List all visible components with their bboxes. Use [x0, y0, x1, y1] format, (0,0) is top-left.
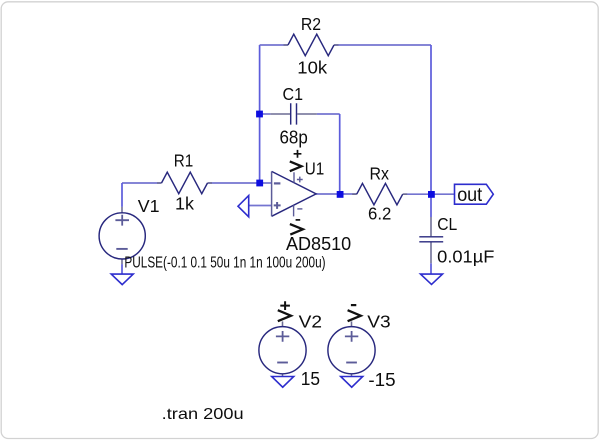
wire: [339, 114, 341, 194]
svg-text:R2: R2: [301, 14, 321, 34]
wire: [317, 113, 340, 115]
node junction at out net: [428, 191, 435, 198]
voltage source V2: [259, 327, 306, 374]
wire: [351, 374, 353, 377]
ground at U1 noninverting input: [238, 196, 249, 217]
svg-text:AD8510: AD8510: [286, 233, 351, 254]
wire: [334, 44, 431, 46]
ground below V3: [341, 377, 363, 388]
wire: [430, 194, 432, 217]
svg-text:-15: -15: [368, 370, 395, 390]
svg-text:V3: V3: [367, 312, 390, 332]
V- supply net flag at U1 bottom: [290, 220, 303, 235]
svg-text:68p: 68p: [280, 128, 308, 148]
capacitor CL: [419, 217, 443, 263]
svg-text:out: out: [457, 185, 483, 206]
svg-text:6.2: 6.2: [368, 204, 391, 224]
svg-text:C1: C1: [283, 84, 304, 104]
svg-text:CL: CL: [437, 214, 457, 234]
wire: [260, 113, 271, 115]
wire: [340, 193, 357, 195]
net flag out: [455, 184, 494, 206]
svg-text:V2: V2: [299, 312, 322, 332]
wire: [282, 321, 284, 327]
svg-text:1k: 1k: [175, 193, 194, 213]
wire: [260, 182, 272, 184]
V- net flag at V3: [348, 305, 361, 321]
svg-text:0.01µF: 0.01µF: [437, 246, 494, 266]
wire: [121, 183, 123, 207]
op-amp U1: [272, 171, 317, 216]
wire: [260, 44, 288, 46]
voltage source V1: [99, 207, 145, 264]
wire: [403, 193, 431, 195]
wire: [431, 193, 455, 195]
wire: [430, 263, 432, 274]
wire: [249, 205, 272, 207]
wire: [122, 182, 162, 184]
svg-text:15: 15: [301, 369, 320, 389]
wire: [430, 45, 432, 194]
svg-text:V1: V1: [138, 196, 160, 216]
svg-text:U1: U1: [305, 159, 325, 179]
wire: [316, 193, 340, 195]
V+ net flag at V2: [278, 301, 291, 321]
svg-text:Rx: Rx: [370, 164, 390, 184]
svg-text:PULSE(-0.1 0.1 50u 1n 1n 100u: PULSE(-0.1 0.1 50u 1n 1n 100u 200u): [124, 254, 325, 271]
ground below V1: [111, 274, 133, 285]
svg-text:R1: R1: [174, 151, 194, 171]
ground below CL: [421, 274, 443, 284]
node junction at U1 output: [337, 191, 344, 198]
resistor Rx: [352, 183, 407, 205]
resistor R2: [284, 34, 339, 56]
wire: [259, 45, 261, 183]
wire: [121, 264, 123, 274]
node junction at C1 / left branch: [256, 111, 263, 118]
resistor R1: [157, 172, 212, 194]
wire: [282, 374, 284, 377]
V+ supply net flag at U1 top: [290, 150, 302, 171]
ground below V2: [272, 377, 294, 388]
capacitor C1: [270, 103, 317, 124]
wire: [208, 182, 260, 184]
node junction at U1 inverting input: [256, 180, 263, 187]
voltage source V3: [328, 327, 375, 374]
wire: [351, 321, 353, 327]
svg-text:.tran 200u: .tran 200u: [162, 406, 244, 423]
svg-text:10k: 10k: [297, 57, 327, 77]
